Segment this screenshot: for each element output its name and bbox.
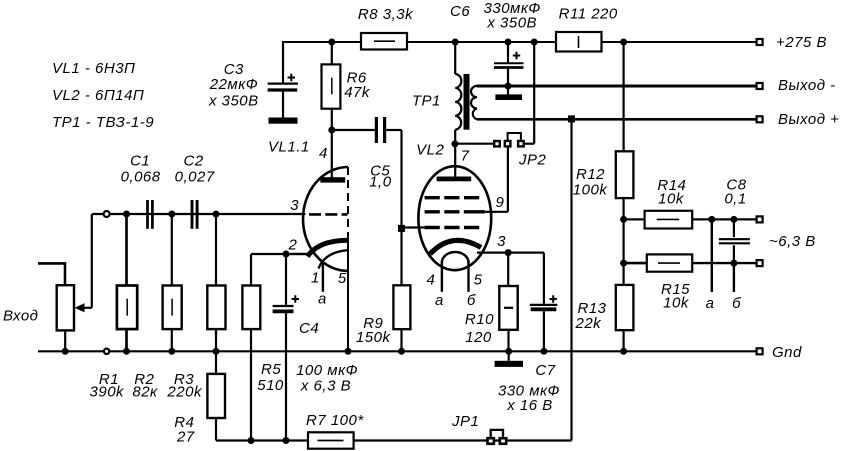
- svg-text:R11 220: R11 220: [559, 6, 618, 23]
- svg-text:Выход +: Выход +: [778, 111, 839, 128]
- svg-text:С2: С2: [184, 153, 204, 170]
- svg-text:х 6,3 В: х 6,3 В: [300, 378, 351, 395]
- svg-text:2: 2: [287, 236, 297, 253]
- svg-text:VL1.1: VL1.1: [268, 138, 310, 155]
- svg-text:С7: С7: [535, 362, 555, 379]
- svg-text:10k: 10k: [658, 190, 685, 207]
- svg-text:а: а: [706, 295, 715, 312]
- svg-text:510: 510: [257, 377, 284, 394]
- svg-text:х 350В: х 350В: [486, 15, 537, 32]
- svg-text:R5: R5: [261, 361, 281, 378]
- svg-text:0,027: 0,027: [175, 169, 215, 186]
- svg-text:22k: 22k: [575, 315, 603, 332]
- svg-text:ТР1 - ТВЗ-1-9: ТР1 - ТВЗ-1-9: [52, 114, 154, 131]
- svg-text:4: 4: [319, 145, 328, 162]
- svg-text:27: 27: [176, 428, 195, 445]
- svg-text:R10: R10: [465, 311, 494, 328]
- svg-text:Вход: Вход: [3, 308, 38, 325]
- svg-text:R12: R12: [576, 166, 605, 183]
- svg-text:47k: 47k: [344, 84, 371, 101]
- svg-text:4: 4: [426, 272, 435, 289]
- svg-text:а: а: [318, 291, 327, 308]
- svg-text:3: 3: [497, 233, 506, 250]
- svg-text:82к: 82к: [132, 384, 158, 401]
- svg-text:0,068: 0,068: [121, 169, 161, 186]
- svg-text:а: а: [435, 292, 444, 309]
- svg-text:100k: 100k: [573, 182, 609, 199]
- svg-text:5: 5: [474, 272, 483, 289]
- svg-text:+275 В: +275 В: [776, 34, 827, 51]
- svg-text:Выход -: Выход -: [778, 77, 836, 94]
- svg-text:ТР1: ТР1: [412, 93, 441, 110]
- svg-text:390k: 390k: [90, 384, 126, 401]
- svg-text:JP1: JP1: [451, 413, 479, 430]
- svg-text:5: 5: [338, 270, 347, 287]
- svg-text:R8 3,3k: R8 3,3k: [358, 6, 414, 23]
- svg-text:0,1: 0,1: [724, 190, 746, 207]
- svg-text:9: 9: [495, 194, 504, 211]
- svg-text:10k: 10k: [663, 294, 690, 311]
- svg-text:7: 7: [461, 147, 470, 164]
- svg-text:х 350В: х 350В: [208, 92, 259, 109]
- svg-text:С4: С4: [299, 320, 319, 337]
- svg-text:б: б: [732, 295, 741, 312]
- svg-text:3: 3: [290, 197, 299, 214]
- svg-text:VL2 - 6П14П: VL2 - 6П14П: [52, 87, 144, 104]
- svg-text:~6,3 В: ~6,3 В: [769, 233, 816, 250]
- svg-text:22мкФ: 22мкФ: [209, 76, 258, 93]
- svg-text:120: 120: [465, 329, 492, 346]
- svg-text:VL1 - 6Н3П: VL1 - 6Н3П: [52, 60, 135, 77]
- svg-text:100 мкФ: 100 мкФ: [296, 362, 358, 379]
- svg-text:220k: 220k: [166, 384, 203, 401]
- svg-text:VL2: VL2: [416, 141, 444, 158]
- svg-text:х 16 В: х 16 В: [506, 397, 553, 414]
- svg-text:1,0: 1,0: [369, 174, 392, 191]
- svg-text:JP2: JP2: [518, 152, 547, 169]
- svg-text:б: б: [467, 292, 476, 309]
- svg-text:1: 1: [311, 270, 320, 287]
- svg-text:С1: С1: [130, 153, 150, 170]
- svg-text:R7 100*: R7 100*: [306, 412, 364, 429]
- svg-text:С6: С6: [450, 3, 470, 20]
- svg-text:Gnd: Gnd: [772, 344, 802, 361]
- svg-text:150k: 150k: [356, 329, 392, 346]
